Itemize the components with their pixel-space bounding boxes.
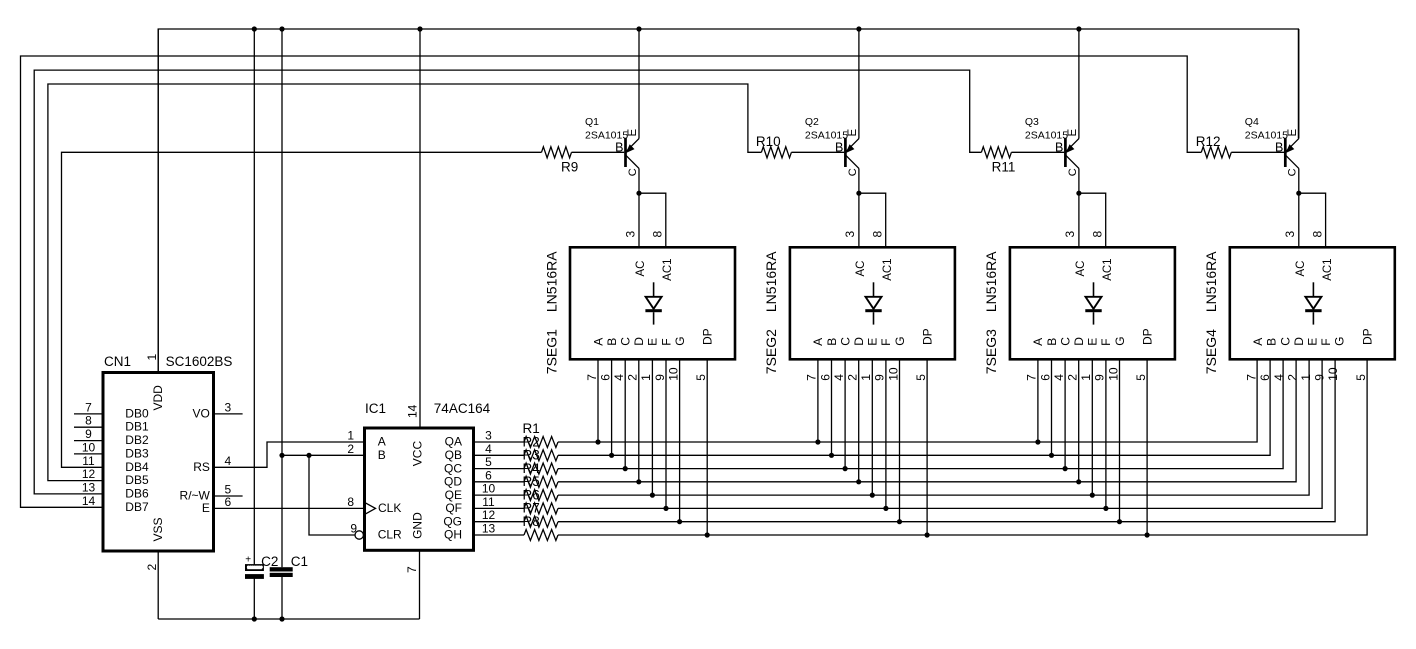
svg-text:8: 8 — [651, 231, 665, 238]
C1 label — [291, 554, 308, 569]
svg-text:14: 14 — [406, 404, 420, 418]
svg-text:G: G — [1113, 336, 1127, 345]
svg-text:F: F — [1099, 338, 1113, 345]
CN1 pin number 8 — [85, 414, 92, 428]
svg-text:Q4: Q4 — [1245, 116, 1259, 128]
svg-text:B: B — [835, 140, 843, 154]
svg-text:E: E — [1306, 338, 1320, 346]
svg-text:Q2: Q2 — [805, 116, 819, 128]
svg-text:7: 7 — [85, 400, 92, 414]
7SEG2 pin number 9 — [873, 374, 887, 381]
junction node 7SEG2 F — [883, 506, 888, 511]
svg-text:A: A — [1251, 338, 1265, 346]
R1 label — [523, 421, 540, 436]
svg-text:DP: DP — [920, 328, 934, 345]
IC1 pin name QH — [444, 528, 462, 542]
7SEG4 pin name A — [1251, 338, 1265, 346]
CN1 pin name RS — [193, 460, 210, 474]
svg-text:E: E — [1067, 129, 1079, 137]
wire B to IC1 CLR — [309, 455, 355, 535]
wire R9 to Q1 base — [572, 151, 625, 153]
svg-text:C: C — [1287, 168, 1299, 176]
svg-text:C: C — [838, 337, 852, 346]
svg-text:C: C — [619, 337, 633, 346]
svg-text:1: 1 — [145, 354, 159, 361]
svg-text:CN1: CN1 — [104, 354, 131, 369]
7SEG3 pin number 10 — [1106, 367, 1120, 381]
svg-text:11: 11 — [82, 454, 95, 468]
7SEG2 part name LN516RA — [763, 251, 779, 312]
svg-text:2: 2 — [626, 374, 640, 381]
resistor R8 — [524, 530, 558, 541]
junction node Q4 collector — [1296, 191, 1301, 196]
svg-text:AC: AC — [635, 261, 647, 277]
svg-text:B: B — [605, 338, 619, 346]
7SEG1 pin number 10 — [666, 367, 680, 381]
CN1 pin number 1 — [145, 354, 159, 361]
svg-text:VDD: VDD — [151, 385, 165, 411]
7SEG3 pin name F — [1099, 338, 1113, 345]
7SEG3 pin name D — [1072, 337, 1086, 346]
IC1 pin number 6 — [485, 468, 492, 482]
CN1 reference label — [104, 354, 131, 369]
svg-text:6: 6 — [1038, 374, 1052, 381]
resistor R12 — [1201, 147, 1231, 158]
IC1 pin name CLK — [378, 501, 401, 515]
Q2 collector label C — [847, 168, 859, 176]
IC1 pin number 14 — [406, 404, 420, 418]
7SEG4 part name LN516RA — [1203, 251, 1219, 312]
svg-text:AC: AC — [1295, 261, 1307, 277]
svg-text:8: 8 — [1310, 231, 1324, 238]
wire 7SEG1 pin G to bus — [679, 359, 681, 521]
junction node 7SEG2 B — [829, 453, 834, 458]
junction node on B wire — [279, 453, 311, 458]
svg-text:C: C — [1278, 337, 1292, 346]
IC1 pin number 13 — [482, 522, 496, 536]
Q2 reference label — [805, 116, 819, 128]
wire 7SEG1 pin D to bus — [638, 359, 640, 482]
R2 label — [523, 434, 540, 449]
svg-text:R8: R8 — [523, 514, 540, 529]
svg-text:SC1602BS: SC1602BS — [166, 354, 233, 369]
7SEG2 reference label — [763, 329, 779, 374]
svg-text:11: 11 — [482, 495, 495, 509]
svg-text:C: C — [847, 168, 859, 176]
svg-text:4: 4 — [1272, 374, 1286, 381]
wire Q2 collector to display pins 3 and 8 — [859, 193, 886, 247]
7SEG3 pin number 7 — [1025, 374, 1039, 381]
svg-text:R11: R11 — [992, 160, 1016, 175]
Q4 part name 2SA1015 — [1245, 130, 1288, 142]
svg-text:E: E — [627, 129, 639, 137]
7SEG3 reference label — [983, 329, 999, 374]
CN1 pin name DB7 — [125, 500, 149, 514]
R8 label — [523, 514, 540, 529]
7SEG3 pin name C — [1058, 337, 1072, 346]
svg-text:3: 3 — [485, 429, 492, 443]
svg-text:QD: QD — [444, 475, 462, 489]
svg-text:10: 10 — [482, 482, 496, 496]
CN1 pin name VDD — [151, 385, 165, 411]
svg-text:2: 2 — [846, 374, 860, 381]
junction node 7SEG1 B — [609, 453, 614, 458]
resistor R9 — [542, 147, 572, 158]
wire 7SEG3 pin F to bus — [1105, 359, 1107, 508]
wire net DB7 to R12 — [21, 56, 1202, 507]
svg-text:F: F — [659, 338, 673, 345]
capacitor C1 — [270, 567, 293, 577]
svg-text:12: 12 — [482, 508, 496, 522]
svg-text:9: 9 — [85, 427, 92, 441]
CN1 pin 2 VSS wire — [157, 551, 159, 619]
svg-text:E: E — [202, 501, 210, 515]
wire 7SEG1 pin E to bus — [651, 359, 653, 495]
Q2 base label B — [835, 140, 843, 154]
junction node 7SEG1 A — [595, 439, 600, 444]
IC1 pin number 10 — [482, 482, 496, 496]
7SEG2 pin number 10 — [886, 367, 900, 381]
7SEG3 pin name B — [1045, 338, 1059, 346]
wire Q3 collector to display pins 3 and 8 — [1079, 193, 1106, 247]
junction node Q1 collector — [636, 191, 641, 196]
7SEG4 pin name G — [1333, 336, 1347, 345]
wire net DB4 to R9 — [62, 152, 542, 467]
svg-text:3: 3 — [623, 231, 637, 238]
Q2 part name 2SA1015 — [805, 130, 848, 142]
7SEG3 pin number 9 — [1093, 374, 1107, 381]
wire Q4 collector to display pins 3 and 8 — [1299, 193, 1326, 247]
junction node 7SEG3 A — [1035, 439, 1040, 444]
svg-text:10: 10 — [666, 367, 680, 381]
resistor R1 — [524, 437, 558, 448]
svg-text:5: 5 — [485, 455, 492, 469]
svg-text:10: 10 — [1326, 367, 1340, 381]
svg-text:7SEG2: 7SEG2 — [763, 329, 779, 374]
wire 7SEG3 pin E to bus — [1091, 359, 1093, 495]
svg-text:1: 1 — [1299, 374, 1313, 381]
7SEG3 pin name AC1 — [1102, 258, 1114, 280]
svg-text:6: 6 — [598, 374, 612, 381]
svg-text:B: B — [1275, 140, 1283, 154]
svg-text:D: D — [1292, 337, 1306, 346]
svg-text:+: + — [245, 554, 251, 565]
IC1 pin number 5 — [485, 455, 492, 469]
junction node 7SEG2 A — [815, 439, 820, 444]
svg-text:4: 4 — [832, 374, 846, 381]
wire VDD drop to C2 — [253, 29, 255, 565]
resistor R10 — [761, 147, 791, 158]
CN1 pin 9 stub (DB2) — [74, 440, 103, 442]
svg-text:A: A — [378, 435, 386, 449]
7SEG3 pin number 4 — [1052, 374, 1066, 381]
svg-text:IC1: IC1 — [365, 401, 386, 416]
wire 7SEG2 pin D to bus — [858, 359, 860, 482]
7-segment display 7SEG3 body — [1010, 247, 1175, 359]
svg-text:CLR: CLR — [378, 528, 402, 542]
display pin number 8 (block 4) — [1310, 231, 1324, 238]
IC1 QE output stub — [474, 494, 525, 496]
IC1 pin name QA — [445, 435, 462, 449]
resistor R5 — [524, 490, 558, 501]
CN1 pin number 3 — [224, 400, 231, 414]
svg-text:C: C — [627, 168, 639, 176]
7SEG1 pin number 6 — [598, 374, 612, 381]
CN1 pin name DB1 — [125, 420, 149, 434]
svg-text:7SEG1: 7SEG1 — [543, 329, 559, 374]
7SEG2 pin name F — [879, 338, 893, 345]
Q2 emitter label E — [847, 129, 859, 137]
7-segment display 7SEG2 body — [790, 247, 955, 359]
wire 7SEG2 pin B to bus — [831, 359, 833, 455]
R6 label — [523, 487, 540, 502]
svg-text:QB: QB — [445, 448, 462, 462]
svg-text:9: 9 — [873, 374, 887, 381]
IC1 pin name GND — [411, 512, 425, 539]
7SEG4 pin name C — [1278, 337, 1292, 346]
junction node 7SEG2 G — [897, 519, 902, 524]
7SEG4 pin number 4 — [1272, 374, 1286, 381]
svg-text:10: 10 — [1106, 367, 1120, 381]
svg-text:C1: C1 — [291, 554, 308, 569]
connector CN1 body (SC1602BS) — [103, 373, 214, 552]
CN1 pin 8 stub (DB1) — [74, 426, 103, 428]
CN1 pin number 12 — [82, 467, 96, 481]
IC1 pin 7 GND wire — [419, 550, 421, 619]
display pin number 3 (block 1) — [623, 231, 637, 238]
CN1 pin name DB3 — [125, 446, 149, 460]
7SEG1 pin name G — [673, 336, 687, 345]
svg-text:9: 9 — [1093, 374, 1107, 381]
svg-text:G: G — [893, 336, 907, 345]
transistor Q2 (2SA1015 PNP) — [844, 29, 859, 193]
7SEG2 pin name B — [825, 338, 839, 346]
junction node 7SEG1 G — [677, 519, 682, 524]
7SEG1 pin name E — [646, 338, 660, 346]
svg-text:5: 5 — [694, 374, 708, 381]
svg-text:E: E — [866, 338, 880, 346]
svg-text:QE: QE — [445, 488, 462, 502]
7SEG3 pin number 2 — [1066, 374, 1080, 381]
Q3 base label B — [1055, 140, 1063, 154]
svg-text:13: 13 — [82, 480, 96, 494]
wire Q1 collector to display pins 3 and 8 — [639, 193, 666, 247]
junction node 7SEG1 F — [663, 506, 668, 511]
7SEG4 pin number 9 — [1313, 374, 1327, 381]
LED diode inside 7SEG3 — [1085, 282, 1101, 324]
svg-text:6: 6 — [1258, 374, 1272, 381]
svg-text:14: 14 — [82, 494, 96, 508]
display pin number 8 (block 1) — [651, 231, 665, 238]
7SEG2 pin number 5 — [914, 374, 928, 381]
7SEG3 pin number 5 — [1134, 374, 1148, 381]
display pin number 3 (block 4) — [1283, 231, 1297, 238]
7SEG3 pin number 1 — [1079, 374, 1093, 381]
wire 7SEG3 pin D to bus — [1078, 359, 1080, 482]
wire 7SEG2 pin DP to bus — [926, 359, 928, 535]
wire bus QH net — [558, 359, 1367, 535]
junction node 7SEG3 G — [1117, 519, 1122, 524]
CN1 pin number 11 — [82, 454, 95, 468]
IC1 QC output stub — [474, 468, 525, 470]
svg-text:LN516RA: LN516RA — [1203, 251, 1219, 312]
svg-text:7SEG3: 7SEG3 — [983, 329, 999, 374]
svg-text:DP: DP — [1140, 328, 1154, 345]
wire VDD rail — [158, 29, 1298, 373]
7-segment display 7SEG1 body — [570, 247, 735, 359]
junction node 7SEG3 F — [1103, 506, 1108, 511]
IC U1 74AC164 body — [365, 428, 474, 550]
CN1 pin 7 stub (DB0) — [74, 413, 103, 415]
IC1 pin name VCC — [411, 441, 425, 467]
svg-text:VO: VO — [193, 406, 210, 420]
junction node 7SEG1 E — [650, 493, 655, 498]
svg-text:12: 12 — [82, 467, 96, 481]
svg-text:5: 5 — [1354, 374, 1368, 381]
C2 label — [261, 554, 278, 569]
wire 7SEG2 pin E to bus — [871, 359, 873, 495]
svg-text:A: A — [1031, 338, 1045, 346]
svg-text:3: 3 — [224, 400, 231, 414]
svg-text:D: D — [1072, 337, 1086, 346]
wire 7SEG3 pin DP to bus — [1146, 359, 1148, 535]
7SEG4 pin name AC — [1295, 261, 1307, 277]
CN1 pin number 13 — [82, 480, 96, 494]
Q1 emitter label E — [627, 129, 639, 137]
svg-text:D: D — [852, 337, 866, 346]
Q4 reference label — [1245, 116, 1259, 128]
svg-text:LN516RA: LN516RA — [763, 251, 779, 312]
wire 7SEG2 pin C to bus — [844, 359, 846, 468]
svg-text:DB2: DB2 — [125, 433, 149, 447]
IC1 pin number 12 — [482, 508, 496, 522]
CN1 pin number 9 — [85, 427, 92, 441]
svg-text:1: 1 — [1079, 374, 1093, 381]
junction node 7SEG3 D — [1076, 479, 1081, 484]
7SEG4 pin number 7 — [1245, 374, 1259, 381]
7SEG4 pin number 10 — [1326, 367, 1340, 381]
svg-text:6: 6 — [485, 468, 492, 482]
wire C2 to GND — [253, 579, 255, 620]
CN1 pin name VO — [193, 406, 210, 420]
7SEG1 pin name AC — [635, 261, 647, 277]
display pin number 8 (block 3) — [1091, 231, 1105, 238]
svg-text:B: B — [1055, 140, 1063, 154]
CN1 pin 10 stub (DB3) — [74, 453, 103, 455]
wire R10 to Q2 base — [791, 151, 844, 153]
IC1 QA output stub — [474, 441, 525, 443]
Q3 emitter label E — [1067, 129, 1079, 137]
svg-text:6: 6 — [224, 495, 231, 509]
IC1 pin number 7 — [405, 566, 419, 573]
svg-text:G: G — [673, 336, 687, 345]
junction node 7SEG1 D — [636, 479, 641, 484]
junction node 7SEG1 DP — [705, 532, 710, 537]
7SEG4 pin name F — [1319, 338, 1333, 345]
wire 7SEG1 pin C to bus — [624, 359, 626, 468]
wire GND rail — [158, 618, 419, 620]
7SEG1 pin name B — [605, 338, 619, 346]
svg-text:DB4: DB4 — [125, 460, 149, 474]
Q1 base label B — [615, 140, 623, 154]
svg-text:8: 8 — [347, 495, 354, 509]
R10 label — [756, 134, 781, 149]
7SEG2 pin number 6 — [818, 374, 832, 381]
svg-text:9: 9 — [350, 522, 357, 536]
svg-text:R10: R10 — [756, 134, 781, 149]
junction node 7SEG1 C — [623, 466, 628, 471]
svg-text:2: 2 — [145, 564, 159, 571]
Q3 reference label — [1025, 116, 1039, 128]
svg-text:B: B — [825, 338, 839, 346]
svg-text:E: E — [1086, 338, 1100, 346]
svg-text:10: 10 — [82, 440, 96, 454]
7SEG2 pin number 1 — [859, 374, 873, 381]
Q3 collector label C — [1067, 168, 1079, 176]
svg-text:R12: R12 — [1196, 134, 1221, 149]
svg-text:DB5: DB5 — [125, 473, 149, 487]
svg-text:B: B — [1045, 338, 1059, 346]
wire net DB6 to R11 — [34, 70, 981, 494]
7SEG4 pin number 1 — [1299, 374, 1313, 381]
svg-text:B: B — [378, 448, 386, 462]
IC1 pin number 1 — [347, 429, 354, 443]
resistor R4 — [524, 476, 558, 487]
7SEG1 pin name AC1 — [662, 258, 674, 280]
Q3 part name 2SA1015 — [1025, 130, 1068, 142]
CN1 pin number 14 — [82, 494, 96, 508]
svg-text:DP: DP — [1360, 328, 1374, 345]
wire bus QB net — [558, 359, 1270, 455]
7SEG1 pin name D — [632, 337, 646, 346]
IC1 pin number 3 — [485, 429, 492, 443]
svg-text:AC: AC — [855, 261, 867, 277]
IC1 QD output stub — [474, 481, 525, 483]
svg-text:Q1: Q1 — [585, 116, 599, 128]
wire 7SEG1 pin F to bus — [665, 359, 667, 508]
7SEG1 part name LN516RA — [543, 251, 559, 312]
wire 7SEG2 pin F to bus — [885, 359, 887, 508]
IC1 pin name QE — [445, 488, 462, 502]
display pin number 3 (block 3) — [1063, 231, 1077, 238]
svg-text:E: E — [847, 129, 859, 137]
svg-text:G: G — [1333, 336, 1347, 345]
CN1 pin 5 stub (R/~W) — [214, 495, 243, 497]
LED diode inside 7SEG2 — [865, 282, 881, 324]
svg-text:R9: R9 — [561, 160, 578, 175]
CN1 pin number 7 — [85, 400, 92, 414]
svg-text:GND: GND — [411, 512, 425, 539]
7SEG4 pin number 2 — [1285, 374, 1299, 381]
IC1 pin number 11 — [482, 495, 495, 509]
7SEG4 pin name E — [1306, 338, 1320, 346]
svg-text:2: 2 — [1285, 374, 1299, 381]
7SEG4 reference label — [1203, 329, 1219, 374]
CN1 pin name DB6 — [125, 486, 149, 500]
CN1 pin number 4 — [224, 454, 231, 468]
CN1 pin number 5 — [224, 483, 231, 497]
resistor R2 — [524, 450, 558, 461]
wire E to IC1 CLK — [214, 507, 365, 509]
svg-text:DP: DP — [701, 328, 715, 345]
wire VDD drop to IC1 VCC — [419, 29, 421, 428]
IC1 part name 74AC164 — [434, 401, 491, 416]
svg-text:CLK: CLK — [378, 501, 401, 515]
IC1 QB output stub — [474, 454, 525, 456]
svg-text:LN516RA: LN516RA — [543, 251, 559, 312]
7SEG1 pin name DP — [701, 328, 715, 345]
junction node 7SEG3 B — [1049, 453, 1054, 458]
